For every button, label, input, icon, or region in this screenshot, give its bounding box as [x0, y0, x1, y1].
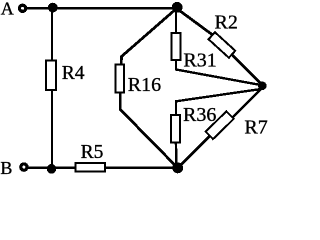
wire R7 to right node	[231, 87, 264, 120]
node junction J1 top-left	[48, 3, 58, 13]
wire left vertical	[51, 8, 53, 168]
svg-text:A: A	[1, 0, 14, 19]
wire top node to R2	[177, 8, 212, 34]
svg-text:B: B	[0, 158, 12, 178]
terminal A circle	[20, 5, 26, 11]
node bottom	[172, 163, 183, 174]
wire diagonal top node to R16	[121, 8, 176, 63]
resistor R2	[209, 32, 236, 58]
resistor R16	[116, 64, 124, 92]
svg-text:R36: R36	[183, 104, 216, 126]
resistor R36	[171, 115, 180, 142]
svg-text:R7: R7	[244, 117, 267, 139]
svg-text:R16: R16	[128, 74, 161, 96]
svg-text:R31: R31	[183, 50, 216, 72]
node junction J2 bottom-left	[47, 164, 57, 174]
resistor R4	[46, 61, 56, 91]
svg-text:R5: R5	[81, 142, 104, 163]
wire R31 stub and diagonal to right node	[176, 60, 262, 85]
svg-text:R4: R4	[62, 63, 85, 84]
wire top node to R31	[175, 8, 177, 33]
wire R36 top stub and diagonal to right node	[176, 89, 264, 115]
svg-text:R2: R2	[215, 12, 238, 34]
node top	[172, 2, 183, 13]
terminal B circle	[21, 164, 27, 170]
wire top A to top node	[26, 7, 177, 9]
resistor R31	[171, 33, 180, 60]
wire R2 to right node	[232, 55, 263, 86]
wire bottom node to R7	[178, 136, 210, 168]
wire diagonal R16 to bottom node	[120, 93, 177, 168]
wire bottom B to bottom node	[27, 166, 178, 168]
resistor R7	[206, 111, 234, 139]
wire R36 bottom stub to bottom node	[175, 142, 178, 167]
node right	[258, 82, 267, 91]
resistor R5	[75, 163, 105, 172]
